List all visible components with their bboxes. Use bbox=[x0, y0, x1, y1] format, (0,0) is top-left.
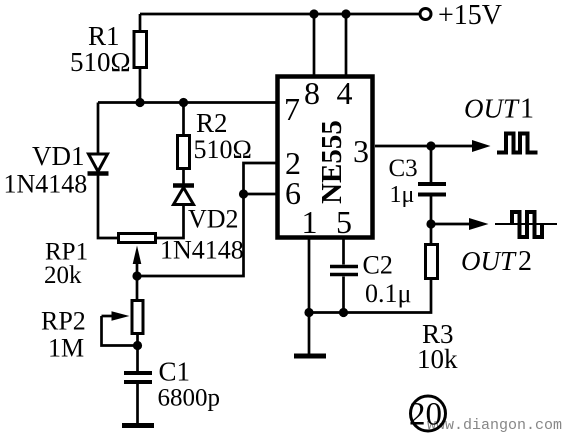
svg-text:2: 2 bbox=[518, 246, 532, 277]
potentiometer RP1 bbox=[119, 234, 156, 243]
svg-text:1N4148: 1N4148 bbox=[160, 236, 244, 265]
ground below pin 1 bbox=[294, 354, 326, 359]
node junction pin3/C3 bbox=[426, 141, 435, 150]
wire R1 top lead bbox=[139, 14, 142, 31]
wire pin 5 lead bbox=[342, 238, 345, 265]
svg-text:10k: 10k bbox=[417, 344, 458, 374]
svg-text:7: 7 bbox=[284, 91, 300, 127]
node junction R1/VD1 bbox=[135, 98, 144, 107]
potentiometer RP2 bbox=[132, 301, 143, 334]
wire VD1 bottom lead bbox=[98, 175, 118, 238]
svg-text:C3: C3 bbox=[389, 155, 418, 182]
svg-text:OUT: OUT bbox=[464, 94, 520, 124]
node RP2 bottom junction bbox=[133, 341, 142, 350]
diode VD2 bbox=[173, 183, 194, 188]
node junction pin1 bbox=[304, 308, 313, 317]
svg-text:8: 8 bbox=[304, 75, 320, 111]
wire +15V top rail bbox=[140, 13, 420, 16]
svg-text:20: 20 bbox=[409, 397, 442, 433]
svg-text:510Ω: 510Ω bbox=[70, 47, 131, 77]
svg-text:6800p: 6800p bbox=[158, 385, 221, 412]
capacitor C2 bbox=[330, 265, 358, 269]
node junction C2 bbox=[339, 308, 348, 317]
svg-text:VD1: VD1 bbox=[32, 141, 85, 171]
svg-text:5: 5 bbox=[336, 204, 352, 240]
wire R1 bottom lead bbox=[139, 68, 142, 103]
svg-text:C1: C1 bbox=[159, 357, 191, 387]
svg-text:0.1μ: 0.1μ bbox=[365, 279, 411, 308]
wire pin 1 to ground bbox=[308, 238, 311, 354]
node RP1 wiper junction bbox=[132, 271, 141, 280]
node junction pin8 rail bbox=[309, 9, 318, 18]
wire VD1 top lead bbox=[97, 103, 100, 155]
svg-text:1: 1 bbox=[302, 204, 318, 240]
wire pin 6 stub bbox=[244, 193, 278, 196]
svg-text:OUT: OUT bbox=[461, 246, 517, 276]
capacitor C1 bbox=[124, 371, 152, 375]
svg-text:1: 1 bbox=[520, 94, 534, 125]
svg-text:6: 6 bbox=[285, 175, 301, 211]
svg-text:VD2: VD2 bbox=[188, 205, 239, 234]
svg-text:RP2: RP2 bbox=[41, 307, 86, 336]
wire pin 4 lead bbox=[345, 14, 348, 76]
wire C3 bottom lead bbox=[430, 197, 433, 225]
svg-text:4: 4 bbox=[337, 75, 353, 111]
wire C1 to ground bbox=[136, 384, 139, 424]
svg-text:510Ω: 510Ω bbox=[194, 135, 252, 164]
waveform OUT2 baseline bbox=[495, 223, 557, 225]
wire pin 8 lead bbox=[313, 14, 316, 76]
node +15V terminal bbox=[420, 9, 431, 20]
resistor R2 bbox=[178, 136, 190, 169]
logo circle 20 bbox=[411, 396, 446, 431]
svg-text:1M: 1M bbox=[48, 334, 84, 363]
resistor R1 bbox=[134, 32, 147, 68]
svg-text:+15V: +15V bbox=[438, 0, 502, 31]
node junction pin6 bbox=[239, 189, 248, 198]
svg-text:3: 3 bbox=[353, 133, 369, 169]
node junction R2 bbox=[179, 98, 188, 107]
wire C2 bottom lead bbox=[342, 277, 345, 313]
waveform OUT1 bbox=[497, 134, 538, 153]
ground below C1 bbox=[122, 423, 154, 428]
wire node to pin 7 bbox=[98, 101, 277, 104]
svg-text:R2: R2 bbox=[196, 108, 228, 138]
wire RP2 to C1 bbox=[136, 346, 139, 372]
resistor R3 bbox=[426, 245, 438, 279]
capacitor C3 bbox=[418, 182, 446, 186]
svg-text:NE555: NE555 bbox=[316, 120, 348, 204]
svg-text:C2: C2 bbox=[363, 251, 393, 280]
wire R2 to VD2 bbox=[182, 169, 185, 185]
wire R3 bottom lead bbox=[309, 279, 431, 313]
wire R2 top lead bbox=[182, 103, 185, 136]
wire VD2 bottom lead bbox=[156, 205, 184, 239]
svg-text:www.diangon.com: www.diangon.com bbox=[427, 417, 562, 434]
diode VD1 bbox=[89, 154, 108, 172]
svg-text:1N4148: 1N4148 bbox=[4, 170, 88, 199]
wire R3 top lead bbox=[430, 224, 433, 244]
wire RP1 to RP2 bbox=[136, 276, 139, 300]
node junction C3/R3/OUT2 bbox=[426, 219, 435, 228]
wire C3 top lead bbox=[430, 146, 433, 182]
svg-text:1μ: 1μ bbox=[390, 182, 415, 208]
op-amp U1 NE555 body bbox=[278, 77, 373, 238]
wire OUT2 arrow bbox=[431, 223, 470, 226]
wire pin 3 output bbox=[375, 145, 473, 148]
node junction pin4 rail bbox=[341, 9, 350, 18]
waveform OUT2 pulses bbox=[512, 212, 542, 237]
wire wiper to pins 2,6 bbox=[137, 163, 277, 276]
svg-text:20k: 20k bbox=[44, 262, 82, 289]
